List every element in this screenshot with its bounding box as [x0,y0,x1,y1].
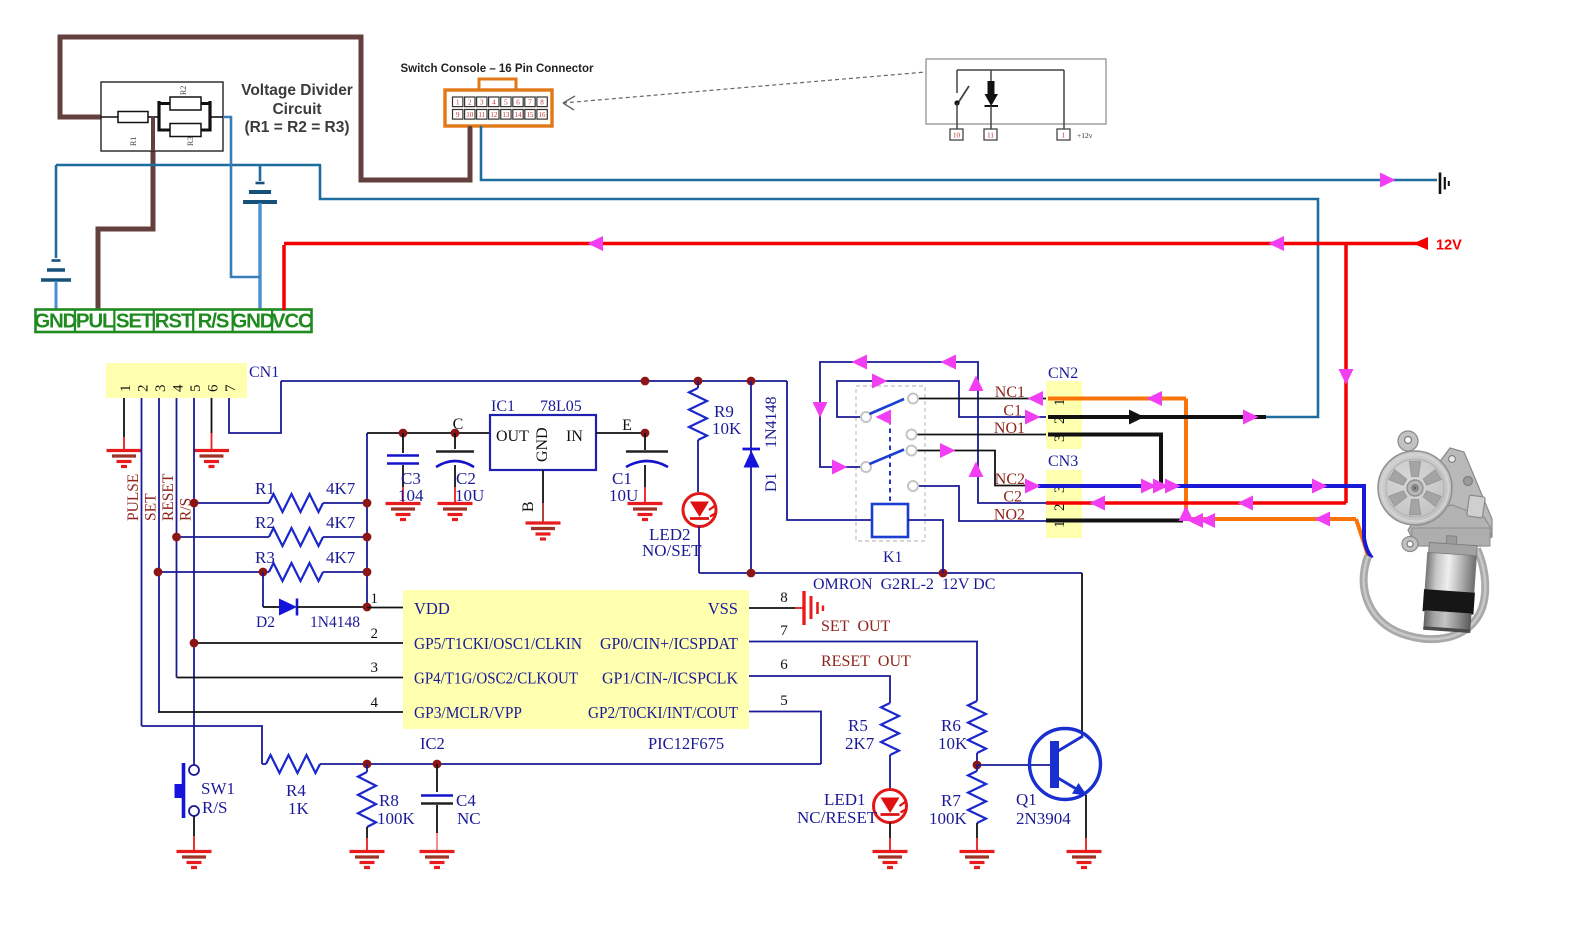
svg-text:GND: GND [534,427,551,462]
wire maroon loop top-left [60,37,470,180]
terminal divider [113,310,115,333]
relay arm pole2 [870,450,905,465]
svg-text:C4: C4 [456,791,476,810]
svg-text:E: E [622,417,632,434]
cable blue NC2 [1038,486,1364,538]
flow arrow [1165,479,1181,494]
svg-text:CN3: CN3 [1048,453,1078,470]
svg-text:IC1: IC1 [491,398,515,415]
svg-text:10U: 10U [455,486,484,505]
svg-text:3: 3 [153,385,169,393]
connector pin 13 [501,110,511,120]
svg-text:NC2: NC2 [995,471,1025,488]
cable orange NC1 [1048,397,1186,401]
node C4 top [433,760,442,769]
svg-text:Switch Console – 16 Pin Connec: Switch Console – 16 Pin Connector [401,63,595,75]
svg-text:R7: R7 [941,791,961,810]
connector pin 2 [465,97,475,107]
resistor R9 [697,381,699,388]
svg-text:9: 9 [456,111,460,119]
flow arrow [1188,513,1204,528]
svg-text:R5: R5 [848,716,868,735]
relay arm pole1 [870,399,905,414]
motor wheel cutout [1389,470,1407,486]
node R3-D2 [259,568,268,577]
connector pin 8 [537,97,547,107]
motor lower ear [1402,537,1418,552]
resistor R8 [366,764,368,772]
flow arrow [1141,479,1157,494]
wire detail box right [1063,70,1065,129]
svg-text:R4: R4 [286,781,306,800]
ground C1 [628,504,663,520]
svg-text:R2: R2 [255,513,275,532]
svg-text:CN2: CN2 [1048,365,1078,382]
wire CN1 pin7 riser to bus [229,381,281,433]
svg-text:10U: 10U [609,486,638,505]
svg-text:10: 10 [953,132,961,140]
svg-text:K1: K1 [883,549,903,566]
svg-text:R1: R1 [129,137,138,146]
wire to battery 2 [259,165,262,181]
node C2 top [451,429,460,438]
flow arrow [969,376,984,392]
svg-text:GND: GND [231,310,273,333]
ground regulator [526,523,561,539]
flow arrow [1028,391,1044,406]
wire LED2 to VSS rail [698,527,700,574]
node D1 bottom [747,569,756,578]
relay contact NC1 [908,394,918,404]
node bus-D1 [747,377,756,386]
svg-text:VDD: VDD [414,599,450,618]
ground C3 [386,504,421,520]
svg-text:4K7: 4K7 [326,513,356,532]
svg-text:RESET: RESET [160,473,177,521]
motor wheel cutout [1389,491,1407,507]
svg-text:(R1 = R2 = R3): (R1 = R2 = R3) [244,119,349,136]
svg-text:GP2/T0CKI/INT/COUT: GP2/T0CKI/INT/COUT [588,703,738,722]
wire maroon from connector pin 10 [468,126,472,180]
svg-text:2: 2 [468,99,472,107]
flow arrow [969,462,984,478]
battery B1 [52,259,61,262]
svg-text:5: 5 [780,693,788,709]
motor wheel cutout [1409,461,1420,476]
svg-text:8: 8 [780,590,788,606]
wire IC2 pin6 RESET OUT [749,676,890,703]
svg-text:GND: GND [34,310,76,333]
motor connector block [1467,495,1486,518]
svg-text:2K7: 2K7 [845,734,875,753]
transistor Q1 2N3904 [1030,729,1101,800]
svg-text:11: 11 [987,132,994,140]
svg-text:100K: 100K [377,809,416,828]
svg-text:CN1: CN1 [249,364,279,381]
flow arrow [941,355,957,370]
node R1 left [190,499,199,508]
wire NO2 to CN3 pin1 [918,486,1046,521]
switch SW (detail) [956,70,958,93]
svg-text:12: 12 [490,111,498,119]
svg-text:NO1: NO1 [994,420,1025,437]
cable black NO1 [1048,435,1161,487]
switch SW1 [189,765,199,775]
svg-text:RESET OUT: RESET OUT [821,653,911,670]
regulator IC1 box [490,415,596,470]
svg-text:3: 3 [480,99,484,107]
svg-text:7: 7 [528,99,532,107]
ground R8 [350,852,385,868]
node VDD [363,603,372,612]
terminal divider [192,310,194,333]
svg-text:4: 4 [171,384,187,392]
wire divider output to GND terminal [223,117,260,277]
ground (top right, small IEC) [1439,173,1442,195]
wire battery 1 to GND terminal [55,281,58,310]
flow arrow [1380,173,1396,188]
motor top ear [1398,431,1418,451]
cable black NO2 [1046,519,1183,523]
motor cable gray [1364,549,1486,639]
svg-text:SET: SET [116,310,154,333]
connector pin 10 [465,110,475,120]
motor wheel cutout [1423,470,1441,486]
svg-text:13: 13 [502,111,510,119]
cable blue to motor [1364,538,1372,558]
wire VSS rail [699,572,1082,574]
motor bracket hole mid [1464,477,1473,486]
svg-text:6: 6 [516,99,520,107]
wire battery 2 to GND terminal [258,203,261,310]
svg-text:D1: D1 [763,472,780,492]
ground VSS (rotated) [802,591,805,625]
ground SW1 [177,852,212,868]
switch detail box [926,59,1106,124]
svg-text:NO/SET: NO/SET [642,541,702,560]
resistor R6 [968,701,986,753]
wire bus to relay coil [787,381,872,520]
svg-text:R2: R2 [179,86,188,95]
wire to battery 1 [55,165,58,258]
svg-text:15: 15 [527,111,535,119]
flow arrow [813,402,828,418]
svg-text:PIC12F675: PIC12F675 [648,734,724,753]
flow arrow [1025,479,1041,494]
capacitor C2 [454,433,456,449]
wire NO1 to CN2 pin3 [917,434,1047,436]
node bus-R9 [694,377,703,386]
wire PULSE vertical [141,398,143,726]
flow arrow [1269,236,1285,251]
wire maroon branch to PUL terminal [98,151,153,310]
flow arrow [1025,410,1041,425]
svg-text:6: 6 [206,384,222,392]
flow arrow [1238,496,1254,511]
resistor R3 [158,571,269,573]
svg-text:8: 8 [540,99,544,107]
flow arrow [876,410,892,425]
wire regulator GND pin [542,470,544,503]
svg-text:12V: 12V [1436,238,1462,254]
svg-text:4: 4 [492,99,496,107]
svg-text:2: 2 [136,385,152,393]
wire relay drive outer loop (C2 path) [820,362,1046,503]
flow arrow [1179,506,1194,522]
terminal divider [153,310,155,333]
svg-text:LED1: LED1 [824,790,866,809]
connector pin 12 [489,110,499,120]
svg-text:GP0/CIN+/ICSPDAT: GP0/CIN+/ICSPDAT [600,634,738,653]
wire IC2 pin4 [158,711,403,713]
node bus-E [641,377,650,386]
svg-text:10K: 10K [712,419,742,438]
relay contact C2 [861,462,871,472]
svg-text:10: 10 [466,111,474,119]
svg-text:GP5/T1CKI/OSC1/CLKIN: GP5/T1CKI/OSC1/CLKIN [414,634,582,653]
motor bracket hole top [1449,456,1456,463]
flow arrow [1147,391,1163,406]
motor bracket plate [1438,448,1492,546]
capacitor C4 [436,764,438,792]
wire base [977,764,1050,766]
wire IC2 pin7 SET OUT [749,642,977,702]
node E [641,429,650,438]
relay contact C1 [861,412,871,422]
wire RESET vertical [176,398,178,678]
cable red C2 [1046,501,1346,505]
connector pin 3 [477,97,487,107]
svg-text:B: B [520,501,537,512]
resistor R4 [266,755,320,773]
resistor R2 (voltage divider parallel top) [157,101,160,132]
relay coil [872,504,908,537]
wire R/S vertical [193,398,195,765]
terminal divider [74,310,76,333]
svg-text:IC2: IC2 [420,734,445,753]
resistor R1 (voltage divider series) [101,116,118,118]
svg-text:7: 7 [780,623,788,639]
battery B2 [256,182,265,185]
wire PULSE to R4 [142,726,263,764]
node R2 right [363,533,372,542]
svg-text:NC: NC [457,809,481,828]
terminal strip outer box [36,310,312,333]
motor gear housing [1408,505,1492,546]
svg-text:D2: D2 [256,614,275,631]
connector pin 15 [525,110,535,120]
relay contact NO2 [908,481,918,491]
ground Q1 [1067,852,1102,868]
svg-text:4K7: 4K7 [326,479,356,498]
svg-text:Q1: Q1 [1016,790,1037,809]
svg-text:SET: SET [143,493,160,521]
svg-text:16: 16 [539,111,547,119]
ground CN1 pin1 [107,451,142,467]
svg-text:R3: R3 [255,548,275,567]
svg-text:NO2: NO2 [994,507,1025,524]
flow arrow [1339,369,1354,385]
wire NC2 to CN3 pin3 [917,451,1039,486]
node R8 top [363,760,372,769]
svg-text:14: 14 [514,111,522,119]
svg-text:NC1: NC1 [995,384,1025,401]
cable black C1 [1048,415,1266,419]
motor pulley wheel [1378,451,1452,525]
svg-text:SW1: SW1 [201,779,235,798]
flow arrow [872,374,888,389]
wire detail box top [957,69,1064,71]
wire VDD vertical [366,433,368,607]
resistor R2 [177,536,270,538]
motor wheel cutout [1409,500,1420,515]
svg-text:OUT: OUT [496,428,529,445]
wire CN1 pin1 to ground [123,398,125,437]
detail pin box 10 [950,129,963,140]
svg-text:Circuit: Circuit [272,101,321,118]
svg-text:GP1/CIN-/ICSPCLK: GP1/CIN-/ICSPCLK [602,669,738,688]
relay K1 outline (dashed) [856,386,925,541]
wire CN1 pin6 to ground [211,398,213,433]
flow arrow [1200,513,1216,528]
LED (detail, pointing down) [990,70,992,81]
svg-text:C2: C2 [1003,489,1022,506]
wire VCC bus [281,380,787,382]
svg-text:4K7: 4K7 [326,548,356,567]
flow arrow [1153,479,1169,494]
resistor R7 [976,765,978,771]
wire coil to VSS node [908,520,943,573]
ground LED1 [873,852,908,868]
connector pin 1 [453,97,463,107]
diode D1 [750,381,752,573]
resistor R1 [194,502,269,504]
svg-text:3: 3 [371,660,379,676]
terminal divider [232,310,234,333]
wire teal bus (line B to relay C1) [320,165,1318,417]
motor wheel cutout [1423,491,1441,507]
connector pin 7 [525,97,535,107]
svg-text:GP3/MCLR/VPP: GP3/MCLR/VPP [414,703,522,722]
svg-text:R1: R1 [255,479,275,498]
wire SET vertical [158,398,160,712]
svg-text:PULSE: PULSE [125,474,142,521]
relay contact NO1 [907,430,917,440]
capacitor C1 [644,433,646,450]
cable orange to motor [1356,519,1368,557]
wire maroon inside divider box [151,117,155,151]
svg-text:6: 6 [780,657,788,673]
svg-text:1: 1 [118,385,134,393]
wire IC2 pin2 [194,642,403,644]
wire IC2 pin5 [749,712,821,765]
flow arrow [588,236,604,251]
flow arrow [1315,512,1331,527]
ground R7 [960,852,995,868]
svg-text:4: 4 [371,695,379,711]
svg-text:5: 5 [188,385,204,393]
wire red 12V bus [284,242,1419,246]
connector pin 11 [477,110,487,120]
ground CN1 pin6 [194,451,229,467]
svg-text:R3: R3 [186,137,195,146]
svg-text:+12v: +12v [1077,131,1093,140]
capacitor C3 [402,433,404,453]
diode D2 [262,572,264,607]
wire regulator IN rail [596,432,645,434]
connector pin 5 [501,97,511,107]
connector CN2 [1046,381,1082,449]
svg-text:1N4148: 1N4148 [310,614,360,631]
node R1 right [363,499,372,508]
wire red branch to C2 [1344,244,1348,504]
svg-text:PUL: PUL [76,310,114,333]
connector CN3 [1046,470,1082,538]
flow arrow [1243,410,1259,425]
svg-text:R/S: R/S [202,798,228,817]
IC2 PIC12F675 box [403,590,749,729]
resistor R5 [881,703,899,755]
svg-text:C1: C1 [1003,403,1022,420]
connector CN 16-pin body [445,90,552,126]
wire relay inner loop (C1 path) [837,381,1046,417]
flow arrow [852,355,868,370]
node R3 right [363,568,372,577]
svg-text:100K: 100K [929,809,968,828]
svg-text:2: 2 [371,626,379,642]
svg-text:NC/RESET: NC/RESET [797,808,878,827]
connector tab [479,79,516,91]
voltage divider box [101,82,223,151]
svg-text:11: 11 [478,111,485,119]
node pin2-R/S [190,639,199,648]
wire teal from connector pin 11 to ground (line A) [481,126,1437,180]
motor body cylinder [1421,534,1479,633]
ground C2 [438,504,473,520]
wire regulator OUT rail [367,432,490,434]
svg-text:1: 1 [1062,132,1066,140]
flow arrow (black) [1129,410,1145,425]
node R6-R7 [973,761,982,770]
svg-text:5: 5 [504,99,508,107]
svg-text:Voltage Divider: Voltage Divider [241,82,353,99]
svg-text:VSS: VSS [708,599,738,618]
motor wheel hub [1407,480,1423,496]
svg-text:1: 1 [456,99,460,107]
flow arrow [940,443,956,458]
wire teal bus left [56,164,321,167]
wire divider output [210,116,223,118]
svg-text:78L05: 78L05 [540,398,582,415]
connector pin 9 [453,110,463,120]
wire NC1 to CN2 pin1 [918,398,1046,400]
svg-text:1N4148: 1N4148 [763,396,780,448]
label 12V arrowhead [1413,237,1428,250]
connector CN1 [106,363,247,398]
connector pin 14 [513,110,523,120]
node R3 left [154,568,163,577]
node C3 top [399,429,408,438]
LED2 [683,494,716,527]
wire LED1 to ground [889,823,891,839]
svg-text:IN: IN [566,428,583,445]
svg-text:OMRON G2RL-2 12V DC: OMRON G2RL-2 12V DC [813,576,995,593]
ground C4 [420,852,455,868]
dashed pointer line to switch detail [563,72,926,103]
svg-text:R/S: R/S [198,310,229,333]
svg-text:10K: 10K [938,734,968,753]
detail pin box 11 [984,129,997,140]
